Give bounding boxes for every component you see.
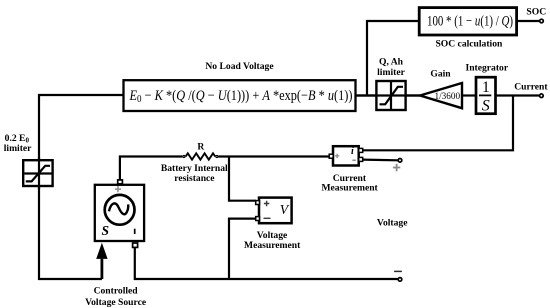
controlled voltage source block bbox=[95, 180, 144, 248]
wire: formula output left, down through 0.2 E0 limiter, along bottom to arrow bbox=[39, 95, 124, 279]
wire: voltage measurement minus left and down to bottom rail bbox=[229, 219, 256, 279]
svg-text:limiter: limiter bbox=[377, 67, 405, 78]
wire: integrator to Current port bbox=[496, 94, 539, 96]
svg-text:Gain: Gain bbox=[430, 68, 451, 79]
svg-text:SOC: SOC bbox=[526, 7, 546, 18]
wire: junction up to SOC block bbox=[367, 21, 419, 96]
port plus terminal bbox=[398, 159, 402, 163]
svg-text:E0 − K *(Q /(Q − U(1))) + A *e: E0 − K *(Q /(Q − U(1))) + A *exp(−B * u(… bbox=[129, 88, 353, 105]
svg-text:1: 1 bbox=[482, 79, 490, 96]
resistor R bbox=[183, 153, 218, 159]
label Battery Internal resistance bbox=[161, 163, 228, 184]
gain triangle bbox=[420, 83, 462, 108]
svg-text:Voltage: Voltage bbox=[377, 217, 408, 228]
wire: source top port up, right to resistor bbox=[120, 157, 182, 181]
svg-text:S: S bbox=[101, 223, 109, 238]
port minus terminal bbox=[398, 278, 402, 282]
svg-text:S: S bbox=[482, 98, 490, 115]
wire: gain to integrator bbox=[462, 94, 477, 96]
svg-text:Voltage Source: Voltage Source bbox=[85, 297, 147, 308]
svg-text:Controlled: Controlled bbox=[94, 285, 139, 296]
svg-text:100 * (1 − u(1) / Q): 100 * (1 − u(1) / Q) bbox=[427, 14, 513, 30]
svg-text:Q, Ah: Q, Ah bbox=[379, 56, 404, 67]
svg-text:1/3600: 1/3600 bbox=[435, 91, 461, 101]
svg-text:Integrator: Integrator bbox=[465, 63, 508, 74]
svg-text:Current: Current bbox=[514, 82, 548, 93]
label Q, Ah limiter bbox=[377, 56, 405, 78]
label plus sign bbox=[393, 164, 400, 171]
label Controlled Voltage Source bbox=[85, 285, 147, 308]
formula block (No Load Voltage) bbox=[124, 80, 356, 111]
svg-text:No Load Voltage: No Load Voltage bbox=[205, 61, 274, 72]
wire: formula to Q,Ah limiter to gain apex bbox=[356, 94, 421, 96]
wire: resistor to current measurement input bbox=[219, 155, 330, 157]
integrator block 1/S bbox=[476, 77, 496, 115]
svg-text:limiter: limiter bbox=[4, 143, 32, 154]
svg-text:resistance: resistance bbox=[174, 173, 215, 184]
svg-text:R: R bbox=[197, 142, 205, 153]
wire: current feedback down and left to current measurement output bbox=[362, 96, 513, 151]
svg-text:Measurement: Measurement bbox=[321, 182, 378, 193]
0.2 E0 limiter bbox=[23, 157, 52, 189]
label minus sign bbox=[394, 270, 402, 272]
svg-text:SOC calculation: SOC calculation bbox=[435, 38, 503, 49]
wire: SOC output bbox=[517, 20, 540, 22]
arrow into S port bbox=[96, 243, 107, 279]
label Current Measurement bbox=[321, 173, 378, 194]
svg-text:Measurement: Measurement bbox=[244, 240, 301, 251]
Q, Ah limiter (saturation) bbox=[356, 81, 421, 110]
SOC calculation block bbox=[419, 8, 516, 35]
port Current bbox=[540, 94, 544, 98]
label Voltage Measurement bbox=[244, 230, 301, 251]
port SOC bbox=[540, 19, 544, 23]
wire: current measurement to plus port bbox=[362, 159, 398, 162]
wire: source bottom port down and bottom rail to minus port bbox=[135, 247, 398, 279]
label 0.2 E0 limiter bbox=[4, 133, 32, 154]
voltage measurement block bbox=[256, 198, 292, 224]
wire: junction down to voltage measurement plus bbox=[229, 157, 256, 201]
svg-text:i: i bbox=[351, 146, 354, 157]
current measurement block bbox=[329, 146, 363, 165]
